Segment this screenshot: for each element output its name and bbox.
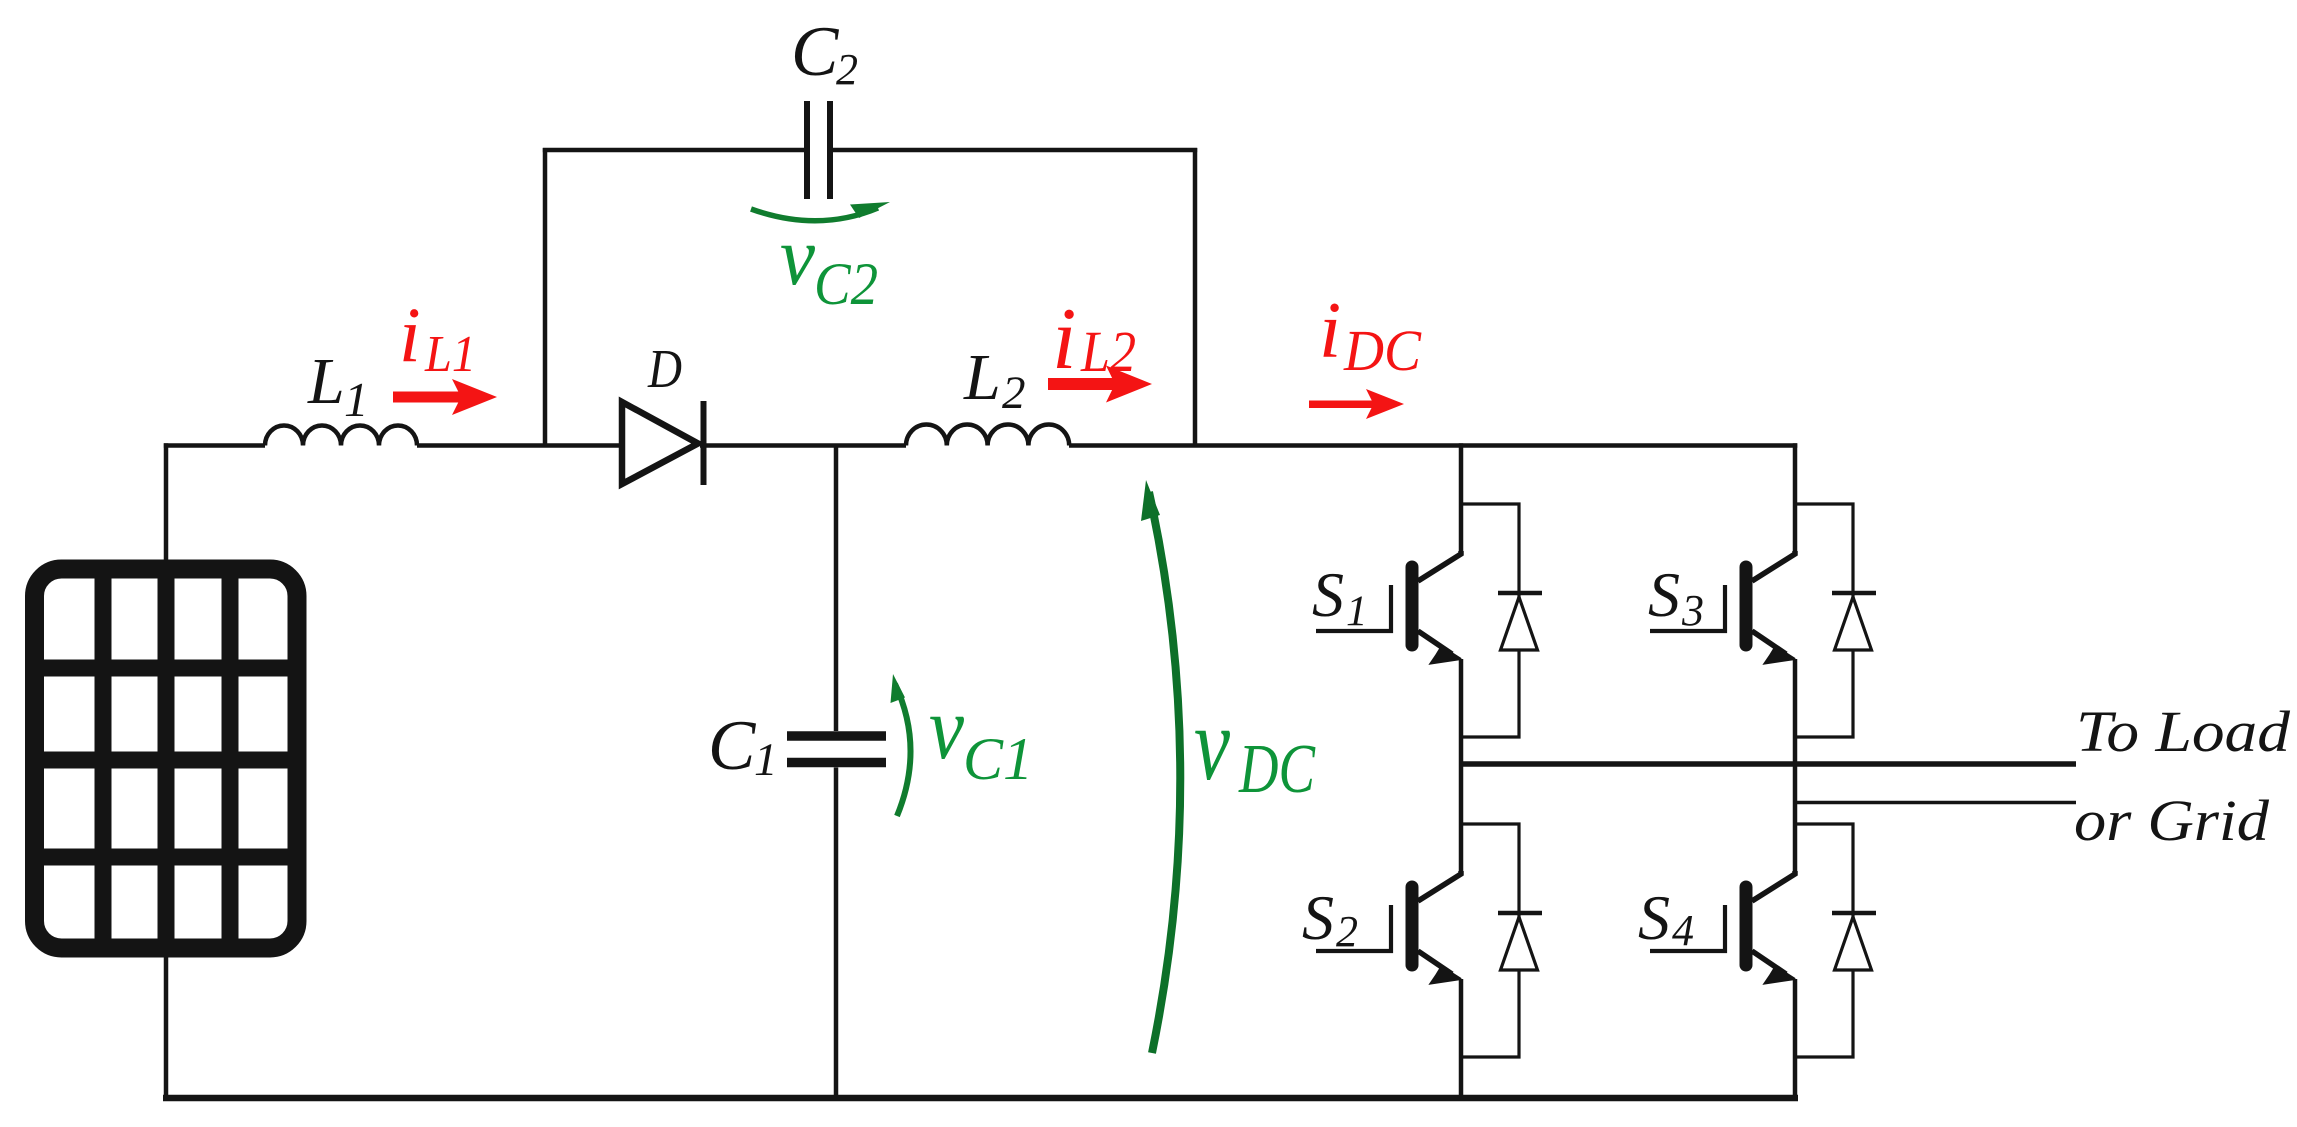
svg-text:S: S [1638,882,1670,953]
freewheel diode of S3 [1795,504,1876,737]
red current arrow i_DC [1309,389,1404,419]
label C2 [791,13,858,94]
svg-text:D: D [647,338,682,399]
svg-text:DC: DC [1343,318,1422,383]
svg-text:To Load: To Load [2076,699,2291,764]
transistor S3 [1650,551,1795,664]
svg-text:C1: C1 [963,726,1033,792]
label i_DC [1319,287,1422,383]
wire: output line or Grid [1795,801,2076,805]
svg-text:v: v [780,210,816,303]
wire: bridge left leg bottom segment [1459,979,1464,1098]
inductor L1 [265,426,417,446]
svg-text:C: C [791,13,840,91]
svg-text:1: 1 [344,372,369,427]
freewheel diode of S1 [1461,504,1542,737]
freewheel diode of S2 [1461,824,1542,1057]
wire: left vertical from top rail to PV panel [164,443,169,562]
green arrow arc vC2 [751,208,878,221]
wire: bottom rail [163,1095,1798,1102]
svg-text:L: L [307,345,345,418]
wire: C2 top wire right of capacitor [833,148,1197,153]
svg-text:L2: L2 [1080,319,1136,384]
wire: C2 branch right vertical [1193,148,1198,446]
label S2 [1302,882,1358,956]
svg-text:1: 1 [1346,588,1368,635]
red current arrow i_L2 [1048,366,1152,403]
svg-text:3: 3 [1681,586,1704,635]
svg-text:C2: C2 [814,251,878,317]
svg-text:2: 2 [836,45,858,94]
transistor S4 [1650,871,1795,984]
svg-text:i: i [399,291,421,378]
label C1 [708,707,778,786]
wire: left vertical from PV panel to bottom rail [164,955,169,1098]
PV panel [27,562,304,955]
capacitor C1 plates [787,736,886,763]
svg-text:i: i [1052,291,1076,388]
svg-text:L1: L1 [424,326,476,383]
svg-text:v: v [929,679,964,778]
wire: bridge right leg bottom segment [1793,979,1798,1098]
wire: output line To Load [1461,761,2076,767]
svg-text:DC: DC [1238,731,1316,808]
label S4 [1638,882,1694,955]
svg-text:S: S [1302,882,1334,953]
wire: C1 branch lower vertical [834,768,839,1099]
inductor L2 [906,425,1069,446]
wire: top rail between diode D and L2 [700,443,906,448]
label vC1 [929,679,1033,792]
wire: bridge right leg top segment [1793,443,1798,554]
label S3 [1648,559,1704,635]
wire: C2 branch left vertical [543,148,548,446]
svg-text:or Grid: or Grid [2074,788,2270,853]
svg-text:2: 2 [1336,907,1358,956]
svg-text:i: i [1319,287,1341,375]
label D [647,338,682,399]
svg-text:S: S [1648,559,1680,630]
transistor S2 [1316,871,1461,984]
label L1 [307,345,369,427]
svg-text:L: L [963,341,1001,414]
label S1 [1312,559,1368,635]
wire: top rail between L1 and diode D [417,443,625,448]
wire: top rail left segment [164,443,265,448]
wire: top rail from L2 to right bridge leg [1069,443,1797,448]
green arrow arc vDC [1149,492,1180,1053]
label i_L1 [399,291,476,383]
capacitor C2 plates [807,101,830,199]
freewheel diode of S4 [1795,824,1876,1057]
wire: bridge right leg middle segment [1793,659,1798,874]
label vDC [1194,685,1316,808]
svg-text:2: 2 [1002,367,1026,419]
label i_L2 [1052,291,1136,388]
wire: bridge left leg middle segment [1459,659,1464,874]
wire: C1 branch upper vertical [834,446,839,732]
transistor S1 [1316,551,1461,664]
svg-text:C: C [708,707,757,785]
wire: C2 top wire left of capacitor [543,148,804,153]
label vC2 [780,210,878,317]
svg-text:S: S [1312,559,1344,630]
diode D cathode bar [701,401,707,485]
svg-text:v: v [1194,685,1230,802]
svg-text:4: 4 [1672,906,1694,955]
svg-text:1: 1 [754,734,778,786]
diode D triangle [622,402,698,484]
green arrow arc vC1 [895,684,911,816]
wire: bridge left leg top segment [1459,443,1464,554]
red current arrow i_L1 [393,379,497,415]
label L2 [963,341,1026,419]
